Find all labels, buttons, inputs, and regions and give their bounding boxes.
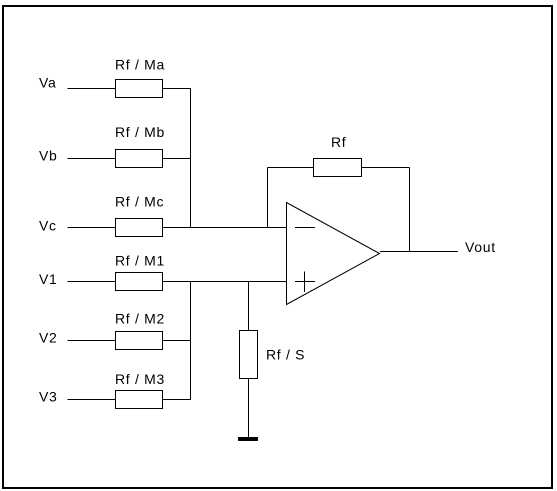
wire: [68, 281, 116, 283]
resistor Rf/S: [240, 331, 306, 379]
wire: [68, 399, 116, 401]
resistor Rf/Mb: [115, 124, 165, 168]
resistor Rf/M3: [115, 371, 165, 409]
wire bus (V1,V2,V3 junction): [190, 282, 192, 400]
wire (to ground): [248, 379, 250, 438]
svg-text:Va: Va: [39, 75, 57, 91]
wire: [362, 167, 410, 169]
svg-text:Rf / Ma: Rf / Ma: [115, 57, 165, 73]
wire: [268, 167, 314, 169]
svg-text:Rf / M3: Rf / M3: [115, 371, 165, 387]
wire: [163, 88, 192, 90]
wire: [68, 158, 116, 160]
svg-text:Rf / S: Rf / S: [266, 347, 305, 363]
wire (output): [380, 251, 458, 253]
wire (feedback to output): [409, 168, 411, 252]
wire: [68, 227, 116, 229]
svg-text:Vc: Vc: [39, 218, 57, 234]
wire bus (Va,Vb,Vc junction): [190, 89, 192, 228]
wire: [163, 340, 192, 342]
svg-text:Rf: Rf: [331, 134, 346, 150]
svg-text:Rf / Mc: Rf / Mc: [115, 194, 164, 210]
resistor Rf/Mc: [115, 194, 164, 237]
resistor Rf/Ma: [115, 57, 165, 98]
wire (feedback from inverting input): [267, 168, 269, 228]
wire: [163, 227, 287, 229]
svg-text:Vout: Vout: [465, 239, 496, 255]
wire: [163, 281, 287, 283]
ground: [238, 437, 258, 441]
svg-text:V1: V1: [39, 271, 58, 287]
svg-text:V2: V2: [39, 330, 58, 346]
wire: [163, 399, 192, 401]
wire: [163, 158, 192, 160]
wire: [68, 340, 116, 342]
resistor Rf (feedback): [314, 134, 362, 177]
svg-text:Vb: Vb: [39, 148, 58, 164]
resistor Rf/M1: [115, 253, 165, 291]
svg-text:V3: V3: [39, 389, 58, 405]
wire: [68, 88, 116, 90]
svg-text:Rf / Mb: Rf / Mb: [115, 124, 165, 140]
resistor Rf/M2: [115, 311, 165, 350]
svg-text:Rf / M2: Rf / M2: [115, 311, 165, 327]
op-amp U1: [287, 203, 380, 305]
wire (to Rf/S): [248, 282, 250, 331]
svg-text:Rf / M1: Rf / M1: [115, 253, 165, 269]
